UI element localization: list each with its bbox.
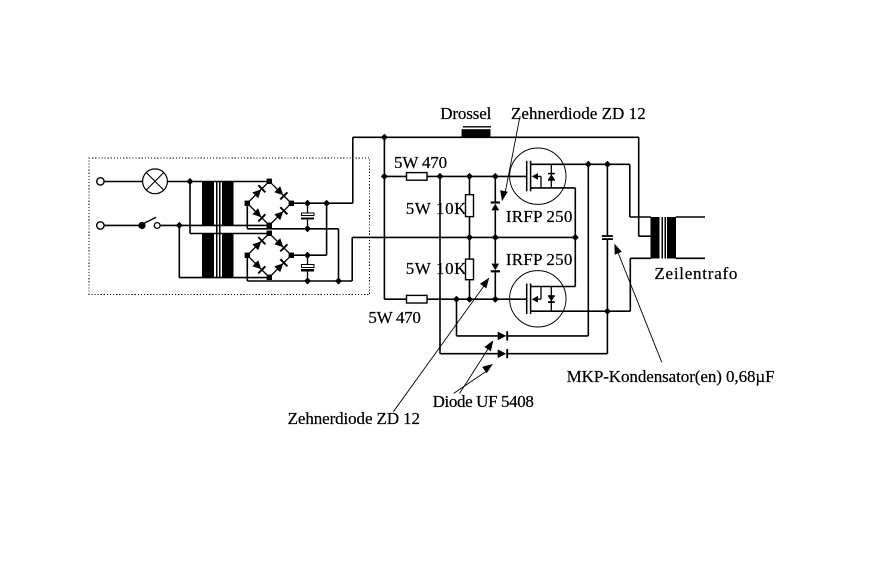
wire zener D1 top lead xyxy=(494,176,496,201)
node A junction (lamp/TR tops) xyxy=(187,178,194,185)
wire BR1 plus rail up to top rail xyxy=(352,137,354,203)
bridge rectifier BR2 (bottom) xyxy=(247,233,291,277)
wire resistor feed vertical xyxy=(383,137,385,299)
wire gate rail bottom (left part) xyxy=(384,298,406,300)
value label Diode UF 5408 xyxy=(433,393,534,410)
wire switch line across TR1 bottom to bridge BR1 AC bottom xyxy=(179,224,269,226)
zener diode D1 ZD 12 (top, cathode up) xyxy=(491,201,500,203)
value label 5W 470 (bottom) xyxy=(368,309,420,326)
wire BR2 minus corner down xyxy=(246,255,248,281)
transformer TR1/TR2 core lines xyxy=(216,182,218,278)
wire Q1 drain down to trafo xyxy=(629,164,631,217)
capacitor C1 (electrolytic, top supply) xyxy=(307,203,309,213)
wire BR1 plus rail xyxy=(291,202,353,204)
resistor R4 5W 10K (bottom) xyxy=(466,259,474,280)
wire zener D1 bottom lead xyxy=(494,210,496,237)
wire node B down left side xyxy=(178,225,180,277)
node rail2 at zener D1 xyxy=(492,173,499,180)
transformer TR1 primary winding (left bar) xyxy=(202,182,214,226)
wire lamp line across TR1 top to bridge BR1 AC top xyxy=(190,181,269,183)
transformer TR3 Zeilentrafo primary (left bar) xyxy=(651,217,660,259)
value label 5W 470 (top) xyxy=(394,154,447,171)
switch S1 xyxy=(138,222,145,229)
node rail2 at R3 xyxy=(466,173,473,180)
wire minus rail up xyxy=(351,237,353,281)
wire Q2 drain to Zeilentrafo bottom xyxy=(630,257,651,259)
node V+ rail / resistor feed xyxy=(381,134,388,141)
op circle of transistor Q1 xyxy=(510,148,566,204)
wire node A down left side xyxy=(189,182,191,234)
wire J2 to switch xyxy=(104,224,139,226)
node F (minus tie) xyxy=(335,278,342,285)
wire up to Q1 drain node xyxy=(587,164,589,336)
wire BR1 minus down to node F xyxy=(338,229,340,281)
diode D3 UF 5408 (upper) xyxy=(498,332,507,341)
wire TR3 secondary bottom stub xyxy=(676,257,705,259)
wire feedback upper horizontal xyxy=(457,335,499,337)
value label Zeilentrafo xyxy=(654,265,738,282)
wire D4 to Q2 drain xyxy=(506,353,607,355)
wire R3 bottom lead xyxy=(469,217,471,238)
transistor Q2 body contact arrow xyxy=(532,296,538,303)
wire minus to middle rail xyxy=(352,236,467,238)
lamp LA1 (bulb with cross) xyxy=(143,169,168,194)
wire gate rail top (left part) xyxy=(384,175,406,177)
value label MKP-Kondensator(en) 0,68uF xyxy=(567,368,775,385)
node BR1+ to BR2+ tie xyxy=(323,200,330,207)
wire to TR2 top / bridge BR2 AC top xyxy=(190,233,269,235)
node C2 top xyxy=(304,252,311,259)
wire BR1 minus corner down xyxy=(246,203,248,229)
transformer TR3 core lines xyxy=(662,217,664,259)
label arrow to capacitor C3 xyxy=(618,253,662,362)
wire Q1 source lead xyxy=(531,187,576,189)
wire Q2 drain lead xyxy=(531,310,631,312)
node mid at MOSFET sources xyxy=(572,234,579,241)
node Q2 drain at C3 xyxy=(604,308,611,315)
wire D3 to Q1 drain xyxy=(506,335,588,337)
wire switch to node B xyxy=(160,224,179,226)
node B junction (switch/TR bottoms) xyxy=(176,222,183,229)
wire R4 bottom lead xyxy=(469,280,471,300)
value label Zehnerdiode ZD 12 (bottom) xyxy=(288,410,420,427)
transistor Q1 body diode xyxy=(550,164,552,188)
wire from rail3 down xyxy=(456,299,458,336)
node rail3 at zener D2 xyxy=(492,296,499,303)
wire zener D2 bottom lead xyxy=(494,272,496,299)
op circle of transistor Q2 xyxy=(510,271,566,327)
wire gate rail bottom (right part) xyxy=(427,298,527,300)
label arrow to zener D2 xyxy=(393,285,485,412)
input terminal J1 (top) xyxy=(97,178,104,185)
wire up to Q2 drain node xyxy=(606,311,608,354)
wire feedback lower horizontal xyxy=(440,353,498,355)
wire V+ top rail xyxy=(353,136,639,138)
node mid at zeners xyxy=(492,234,499,241)
transistor Q1 gate plate xyxy=(526,161,528,192)
wire BR1 minus rail xyxy=(247,228,338,230)
value label IRFP 250 (top) xyxy=(506,208,573,225)
wire Q2 source lead xyxy=(531,286,576,288)
wire middle rail xyxy=(468,236,576,238)
capacitor C3 MKP 0,68uF xyxy=(606,164,608,235)
diode D4 UF 5408 (lower) xyxy=(498,349,507,358)
wire feedback from rail2 down xyxy=(439,176,441,353)
node rail2 left xyxy=(381,173,388,180)
input terminal J2 (bottom) xyxy=(97,222,104,229)
wire TR3 secondary top stub xyxy=(676,216,705,218)
wire Q1 drain to Zeilentrafo top xyxy=(630,216,651,218)
transformer TR2 primary winding (left bar) xyxy=(202,234,214,278)
wire V+ to Zeilentrafo center tap xyxy=(639,235,651,237)
wire Q1 drain lead xyxy=(531,163,630,165)
node C1 top xyxy=(304,200,311,207)
transistor Q2 body diode xyxy=(550,287,552,312)
value label Drossel xyxy=(440,105,491,122)
wire Q1 source down to mid rail xyxy=(574,188,576,238)
node rail3 at D3 tap xyxy=(453,296,460,303)
node mid at R3/R4 xyxy=(466,234,473,241)
dotted enclosure box (mains supply unit) xyxy=(89,158,370,295)
value label 5W 10K (top) xyxy=(406,200,467,217)
wire zener D2 top lead xyxy=(494,237,496,263)
wire R3 top lead xyxy=(469,176,471,194)
resistor R2 5W 470 (bottom) xyxy=(407,295,428,303)
value label Zehnerdiode ZD 12 (top) xyxy=(511,105,646,122)
wire lamp to node A xyxy=(168,181,190,183)
transformer TR3 secondary (right bar) xyxy=(667,217,676,259)
bridge rectifier BR1 (top) xyxy=(247,181,291,225)
wire BR1+ down to BR2+ xyxy=(326,203,328,255)
zener diode D2 ZD 12 (bottom, cathode down) xyxy=(491,270,500,272)
choke L1 (Drossel) xyxy=(463,126,491,128)
wire V+ rail down right side xyxy=(638,137,640,236)
wire gate rail top (right part) xyxy=(427,175,527,177)
transistor Q1 channel bar xyxy=(530,161,532,192)
transformer TR2 secondary winding (right bar) xyxy=(222,234,234,278)
resistor R1 5W 470 (top) xyxy=(407,173,428,181)
wire J1 to lamp xyxy=(104,181,142,183)
transistor Q1 body contact arrow xyxy=(532,173,538,180)
node Q1 drain at C3 xyxy=(604,161,611,168)
wire to TR2 bottom / bridge BR2 AC bottom xyxy=(179,277,269,279)
transformer TR1 secondary winding (right bar) xyxy=(222,182,234,226)
value label 5W 10K (bottom) xyxy=(406,260,467,277)
wire Q2 drain up to trafo xyxy=(629,258,631,311)
resistor R3 5W 10K (top) xyxy=(466,195,474,217)
node rail3 at R4 xyxy=(466,296,473,303)
transistor Q2 gate plate xyxy=(526,284,528,315)
wire Q2 source up to mid rail xyxy=(574,237,576,286)
wire R4 top lead xyxy=(469,237,471,259)
label arrow to diode D3 xyxy=(460,349,489,394)
wire BR2 minus rail xyxy=(247,280,352,282)
wire BR2 plus rail xyxy=(291,254,326,256)
node C2 bottom xyxy=(304,278,311,285)
node C1 bottom xyxy=(304,225,311,232)
node rail2 at feedback tap xyxy=(437,173,444,180)
transistor Q2 channel bar xyxy=(530,284,532,315)
value label IRFP 250 (bottom) xyxy=(506,251,573,268)
node Q1 drain at D3 tie xyxy=(585,161,592,168)
label arrow to zener D1 xyxy=(505,119,519,193)
label arrow to diode D4 xyxy=(454,372,487,394)
capacitor C2 (electrolytic, bottom supply) xyxy=(307,255,309,265)
